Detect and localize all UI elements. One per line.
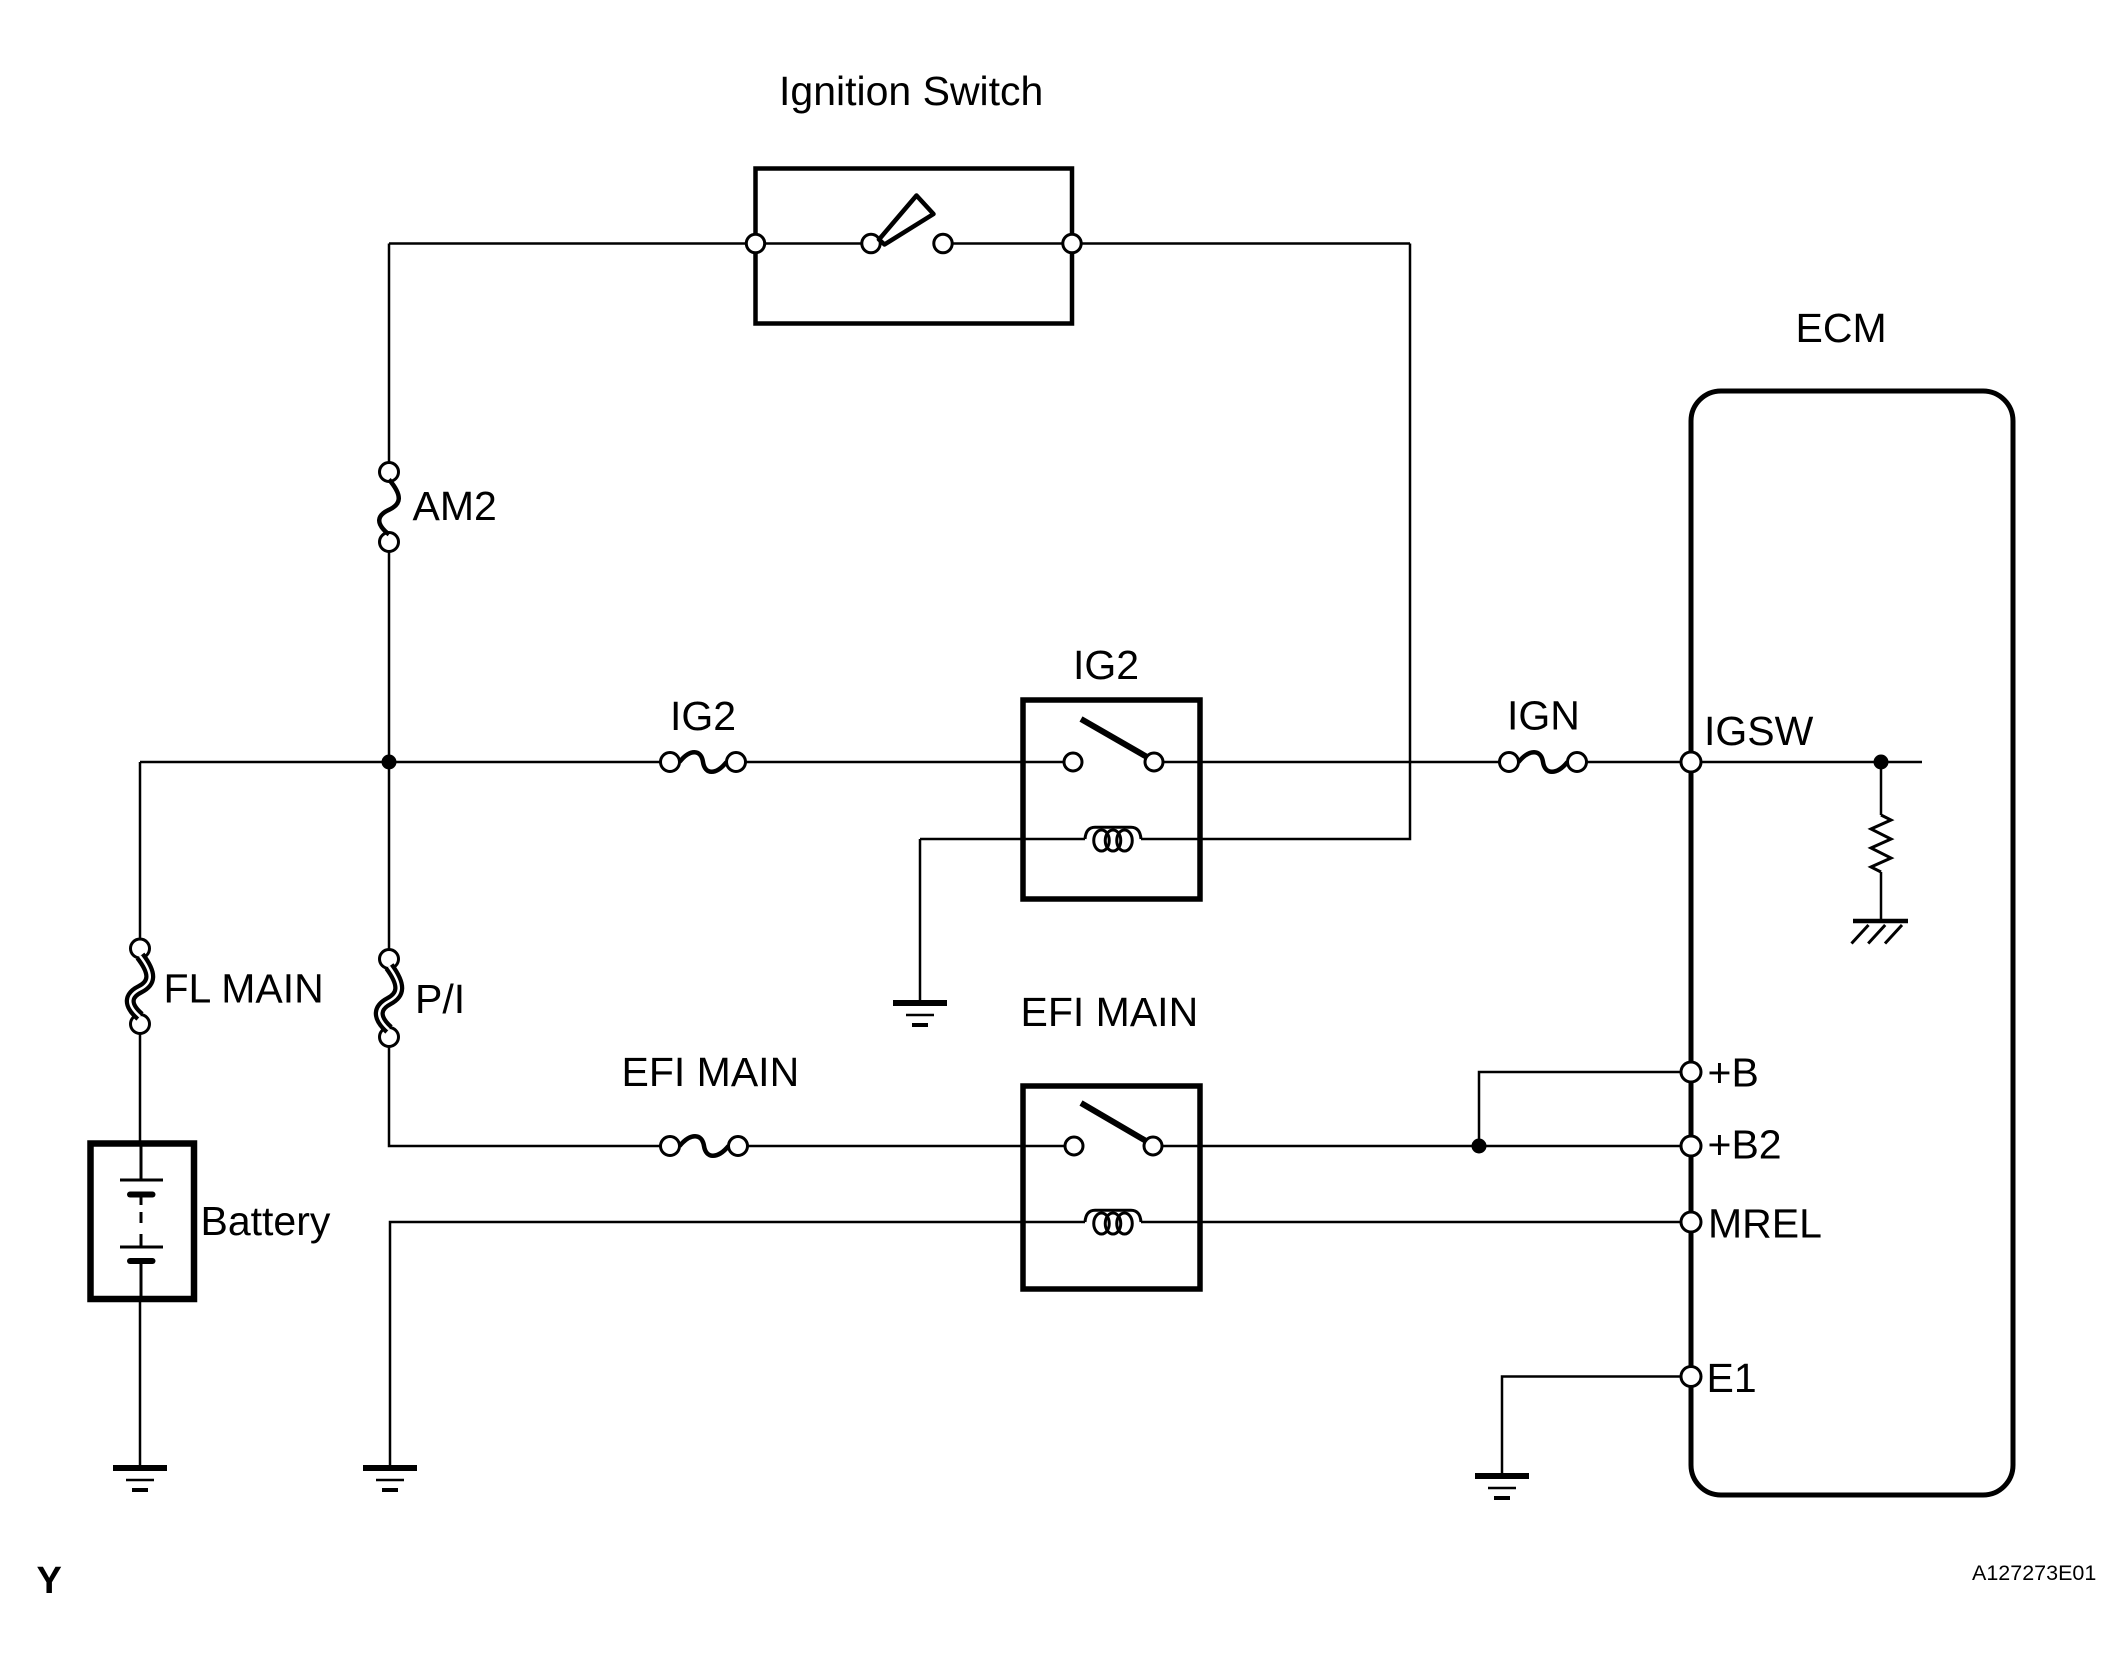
ignition switch terminal (right box edge) <box>1063 234 1081 252</box>
wire: from IGN fuse to ECM IGSW pin <box>1587 761 1683 764</box>
relay IG2 box <box>1023 700 1200 899</box>
battery plate long (+) <box>120 1179 163 1182</box>
svg-text:E1: E1 <box>1707 1355 1757 1401</box>
svg-text:IGSW: IGSW <box>1704 708 1814 754</box>
wire: relay IG2 coil left stub <box>1023 838 1085 841</box>
battery box <box>91 1144 195 1300</box>
wire: from P/I down and right to EFI MAIN fuse <box>389 1046 661 1146</box>
node: junction dot on +B2 wire <box>1472 1139 1487 1154</box>
relay IG2 coil <box>1094 830 1110 851</box>
battery plate short (-) <box>130 1192 153 1198</box>
wire: main row y=762 from left branch to IG2 fuse <box>140 761 661 764</box>
svg-text:EFI MAIN: EFI MAIN <box>622 1049 800 1095</box>
pin E1 terminal <box>1681 1367 1701 1387</box>
fusible link P/I <box>380 950 399 969</box>
svg-text:Ignition Switch: Ignition Switch <box>779 68 1043 114</box>
wire: coil left lead to ground riser <box>390 1222 1023 1468</box>
wire: vertical from AM2 down through junction to P/I fuse <box>388 551 391 950</box>
svg-text:AM2: AM2 <box>413 483 497 529</box>
wire: from FL MAIN down to battery <box>139 1033 142 1142</box>
wire: ignition row left segment (x 388-861, y 243.5) <box>389 242 862 245</box>
svg-text:MREL: MREL <box>1708 1201 1822 1247</box>
wire: left branch down from main row to FL MAIN <box>139 762 142 940</box>
ignition switch lever (open wedge) <box>879 196 934 245</box>
svg-text:IG2: IG2 <box>1073 642 1139 688</box>
relay IG2 switch blade <box>1081 719 1147 757</box>
wire: battery negative down to ground <box>139 1300 142 1468</box>
relay IG2 left contact <box>1064 753 1082 771</box>
ground: hatched chassis ground inside ECM <box>1853 919 1908 924</box>
relay EFI MAIN box <box>1023 1086 1200 1289</box>
battery internal: stub below plate <box>140 1198 143 1248</box>
wire: IG2 coil left lead down to ground <box>920 839 1023 1003</box>
ignition switch pole contact <box>862 234 880 252</box>
svg-text:EFI MAIN: EFI MAIN <box>1021 989 1199 1035</box>
fusible link FL MAIN <box>131 939 150 958</box>
ground: IG2 relay coil ground <box>893 1000 947 1006</box>
node: junction dot inside ECM <box>1874 755 1889 770</box>
ECM box <box>1691 391 2013 1495</box>
relay EFI MAIN switch blade <box>1081 1103 1146 1141</box>
ignition switch box <box>756 169 1073 324</box>
fuse AM2 (vertical) <box>380 463 399 482</box>
resistor (pull-down inside ECM) <box>1871 815 1891 872</box>
relay EFI MAIN right contact <box>1144 1137 1162 1155</box>
svg-text:IG2: IG2 <box>670 693 736 739</box>
wire: resistor top lead <box>1880 762 1883 815</box>
battery internal: top lead <box>140 1143 143 1180</box>
wire: main row from relay IG2 to IGN fuse <box>1163 761 1500 764</box>
pin +B2 terminal <box>1681 1136 1701 1156</box>
battery plate long (+) lower cell <box>120 1246 163 1249</box>
wire: MREL row from relay coil to MREL pin <box>1200 1221 1682 1224</box>
fuse IG2 <box>661 753 680 772</box>
wire: relay EFI MAIN coil left stub <box>1023 1221 1085 1224</box>
ground: E1 ground <box>1475 1473 1529 1479</box>
wire: main row from IG2 fuse to relay left contact <box>746 761 1065 764</box>
fuse IGN <box>1500 753 1519 772</box>
relay EFI MAIN coil <box>1094 1213 1110 1234</box>
svg-text:P/I: P/I <box>415 976 465 1022</box>
svg-text:IGN: IGN <box>1507 693 1580 739</box>
svg-text:+B2: +B2 <box>1708 1122 1782 1168</box>
pin +B terminal <box>1681 1062 1701 1082</box>
wire: vertical from ignition row down to AM2 fuse (x 389) <box>388 244 391 464</box>
ground: battery ground <box>113 1465 167 1471</box>
svg-text:ECM: ECM <box>1796 305 1887 351</box>
wire: resistor bottom lead <box>1880 872 1883 919</box>
svg-text:Battery: Battery <box>201 1198 331 1244</box>
wire: EFI relay output to +B2 pin with junction <box>1162 1145 1682 1148</box>
battery internal: bottom lead <box>140 1262 143 1298</box>
wire: relay IG2 coil right stub <box>1141 838 1200 841</box>
fuse EFI MAIN <box>661 1137 680 1156</box>
battery plate short (-) lower cell <box>130 1258 153 1264</box>
wire: from EFI MAIN fuse to relay left contact <box>748 1145 1066 1148</box>
wire: ignition row right segment to drop corner (x 952-1410) <box>952 242 1410 245</box>
wire: inside ECM from IGSW pin rightward <box>1701 761 1922 764</box>
pin IGSW terminal <box>1681 752 1701 772</box>
relay EFI MAIN left contact <box>1065 1137 1083 1155</box>
svg-text:A127273E01: A127273E01 <box>1972 1561 2096 1585</box>
wire: E1 to ground <box>1502 1377 1682 1475</box>
pin MREL terminal <box>1681 1212 1701 1232</box>
relay IG2 right contact <box>1145 753 1163 771</box>
ground: MREL circuit ground <box>363 1465 417 1471</box>
svg-text:Y: Y <box>37 1560 62 1602</box>
wire: IG2 coil right lead to riser x=1410 up to ignition row <box>1200 244 1410 840</box>
ignition switch terminal (left box edge) <box>746 234 764 252</box>
ignition switch throw contact <box>934 234 952 252</box>
wire: relay EFI MAIN coil right stub <box>1141 1221 1200 1224</box>
node: junction dot at (389,762) <box>382 755 397 770</box>
svg-text:+B: +B <box>1708 1050 1759 1096</box>
svg-text:FL MAIN: FL MAIN <box>164 966 324 1012</box>
wire: +B branch (up from junction, right to +B pin) <box>1479 1072 1682 1146</box>
